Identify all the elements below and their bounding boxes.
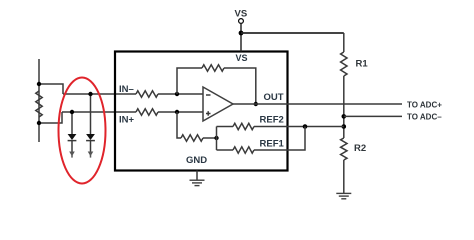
svg-text:IN+: IN+ xyxy=(119,115,135,126)
svg-text:REF1: REF1 xyxy=(260,139,285,150)
node: non-inverting input junction xyxy=(175,110,179,114)
wire: REF2 resistor to box edge xyxy=(254,126,288,128)
resistor: feedback resistor xyxy=(202,65,224,71)
wire: IN+ rail from step into box to input resistor xyxy=(62,111,136,113)
wire: D1 cathode to ground arrow xyxy=(71,141,73,152)
wire: feedback loop left riser and top run xyxy=(177,68,202,94)
svg-text:OUT: OUT xyxy=(264,92,284,103)
node: D2 tap on IN- rail xyxy=(88,92,92,96)
node: inverting input junction xyxy=(175,92,179,96)
resistor: IN- input resistor inside box xyxy=(136,91,158,97)
wire: D2 cathode to ground arrow xyxy=(90,141,92,152)
wire: op-amp output to box edge xyxy=(233,103,288,105)
wire: GND pin below box xyxy=(196,171,198,180)
wire: REF1 rail to resistor xyxy=(217,149,234,151)
wire: R2 bottom to ground xyxy=(343,160,345,193)
resistor R2 xyxy=(341,138,347,160)
node: REF tie tap dot xyxy=(342,124,347,129)
svg-text:IN–: IN– xyxy=(119,84,134,95)
svg-text:TO ADC+: TO ADC+ xyxy=(407,101,442,110)
wire: VS rail down to R1 xyxy=(343,33,345,52)
wire: OUT to ADC+ run xyxy=(288,103,403,105)
node: REF1 tie junction dot xyxy=(303,124,308,129)
wire: VS junction right to R1 branch xyxy=(241,32,344,34)
ground: earth symbol under R2 xyxy=(336,193,351,198)
wire: diode D1 anode drop from IN+ rail xyxy=(71,112,73,134)
node: VS junction dot xyxy=(239,31,244,36)
ground: earth symbol under GND pin xyxy=(190,180,205,185)
resistor: gain resistor to REF node xyxy=(181,135,203,141)
wire: feedback top run right and drop to output xyxy=(224,68,256,104)
node: REF junction dot xyxy=(214,136,218,140)
wire: IN- rail from step into box to input resistor xyxy=(63,93,136,95)
op-amp minus input sign xyxy=(206,94,211,96)
wire: REF1 resistor to box edge xyxy=(254,149,288,151)
node: TO ADC- tap dot xyxy=(342,114,347,119)
op-amp plus input sign xyxy=(206,113,211,115)
wire: IN+ resistor to op-amp non-inverting input xyxy=(158,111,203,113)
wire: gain resistor to REF junction xyxy=(203,137,217,139)
wire: gain-set riser from non-inverting node down xyxy=(177,112,181,138)
wire: TO ADC- run xyxy=(344,115,402,117)
resistor: IN+ input resistor inside box xyxy=(136,109,158,115)
svg-text:REF2: REF2 xyxy=(260,115,284,126)
wire: IN- resistor to op-amp inverting input xyxy=(158,93,203,95)
wire: from top node right then down to IN- rail xyxy=(39,84,63,94)
diode D2 (right clamp diode, cathode down) xyxy=(86,134,95,140)
resistor: REF2 resistor xyxy=(233,123,254,129)
svg-text:VS: VS xyxy=(235,9,248,20)
terminal: VS supply open circle xyxy=(239,19,244,24)
wire: VS terminal down to junction xyxy=(240,23,242,51)
ground: arrow ground under D1 xyxy=(69,152,75,157)
svg-text:VS: VS xyxy=(236,53,248,63)
node: D1 tap on IN+ rail xyxy=(70,110,74,114)
wire: REF1 external run and riser to REF2 run xyxy=(288,127,306,151)
diode D1 (left clamp diode, cathode down) xyxy=(68,134,77,140)
node: bottom-left junction dot xyxy=(37,121,41,125)
node: top-left junction dot xyxy=(37,82,41,86)
op-amp U1 triangle xyxy=(203,87,233,121)
resistor: REF1 resistor xyxy=(233,147,254,153)
wire: diode D2 anode drop from IN- rail xyxy=(90,94,92,134)
resistor R1 xyxy=(341,52,347,76)
svg-text:R2: R2 xyxy=(354,143,366,154)
wire: REF junction riser between REF2 and REF1 rails xyxy=(216,127,218,151)
svg-text:R1: R1 xyxy=(356,59,369,70)
wire: REF2 external run to divider tap xyxy=(288,126,344,128)
ground: arrow ground under D2 xyxy=(88,152,94,157)
svg-text:TO ADC–: TO ADC– xyxy=(407,113,442,122)
highlight: red ellipse around clamp diodes xyxy=(59,78,106,184)
wire: REF2 rail to resistor xyxy=(217,126,234,128)
node: feedback-output junction xyxy=(254,102,258,106)
resistor: source resistance (left vertical zigzag) xyxy=(36,91,42,117)
svg-text:GND: GND xyxy=(186,155,207,166)
amplifier package outline box U1 xyxy=(115,52,288,171)
wire: from bottom node right then up to IN+ rail xyxy=(39,112,62,123)
wire: left input vertical rail xyxy=(38,59,40,142)
wire: R1 bottom down through OUT crossing to divider taps xyxy=(343,76,345,138)
